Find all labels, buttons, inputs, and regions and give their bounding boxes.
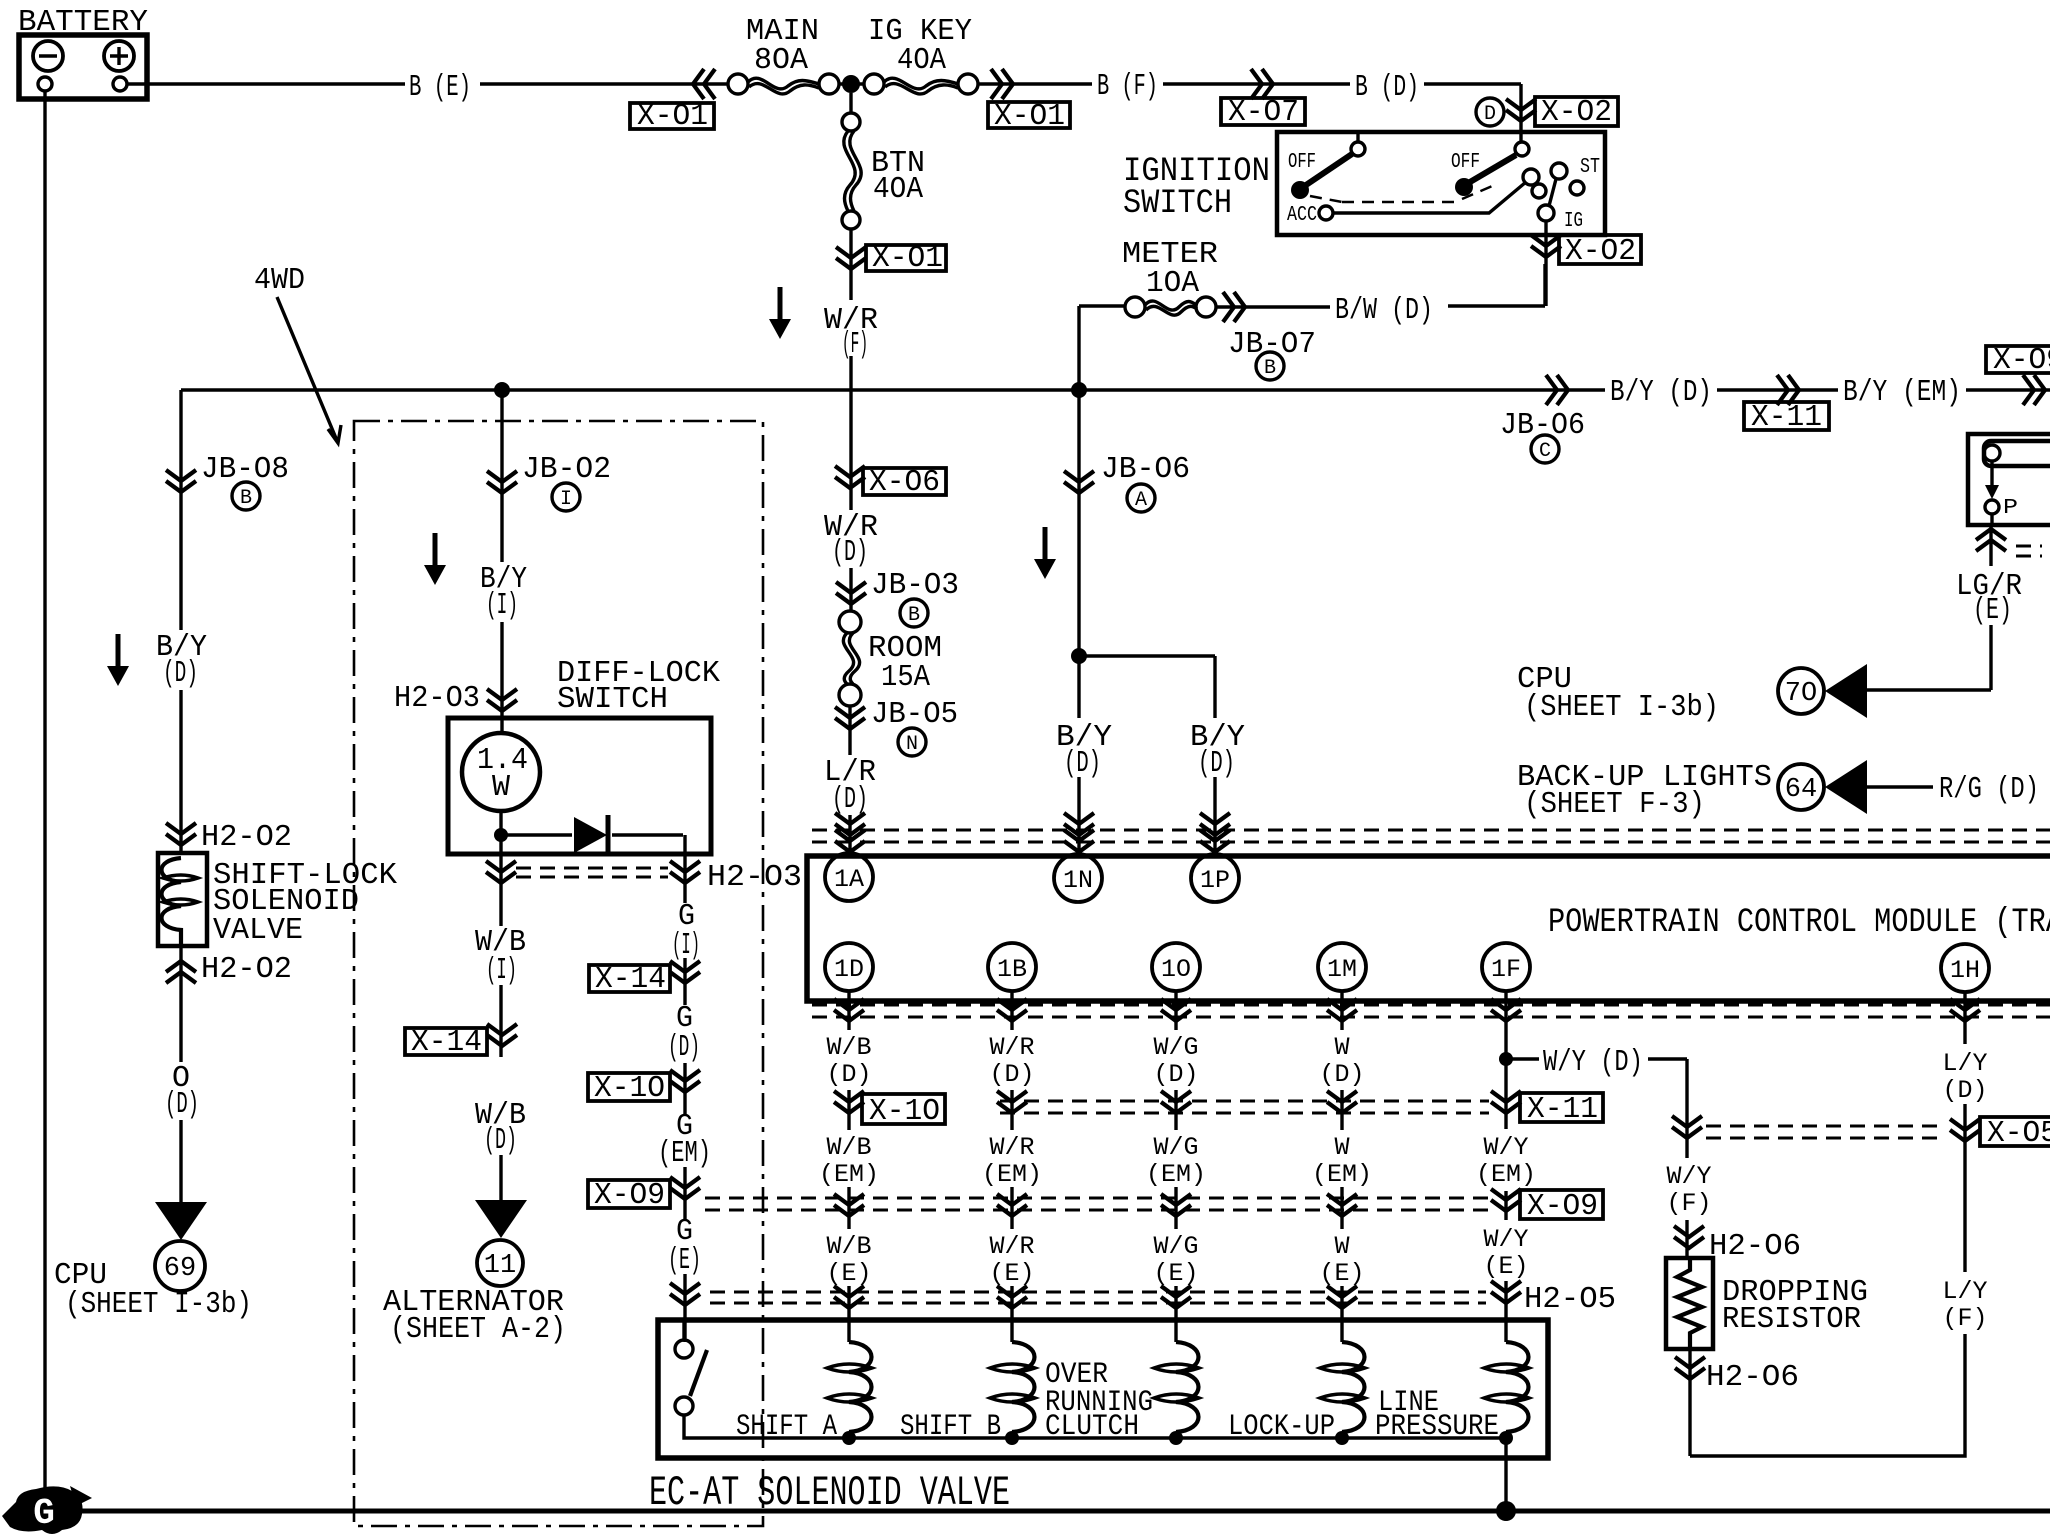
svg-text:W/G: W/G bbox=[1153, 1033, 1198, 1062]
junction dot lock-up bbox=[1335, 1431, 1349, 1445]
svg-text:POWERTRAIN CONTROL MODULE (TRA: POWERTRAIN CONTROL MODULE (TRA bbox=[1548, 904, 2050, 942]
harness dashes LG/R bbox=[2016, 546, 2042, 556]
connector X-11 bbox=[1744, 400, 1829, 435]
svg-text:(E): (E) bbox=[1483, 1252, 1528, 1281]
svg-text:W: W bbox=[1334, 1033, 1349, 1062]
connector chevron 1N bbox=[1064, 813, 1094, 835]
connector chevron X-01 right bbox=[991, 69, 1013, 99]
svg-text:N: N bbox=[906, 733, 918, 756]
wire W/Y (F) segments bbox=[1685, 1220, 1688, 1258]
svg-text:(I): (I) bbox=[486, 588, 518, 623]
connector chevron H2-06 lower bbox=[1675, 1357, 1705, 1379]
arrow to 70 bbox=[1825, 664, 1867, 718]
EC-AT switch contact upper bbox=[675, 1340, 693, 1358]
pin 1M bbox=[1318, 943, 1366, 991]
svg-text:ST: ST bbox=[1580, 156, 1600, 179]
connector chevron JB-03 B bbox=[836, 582, 866, 604]
svg-text:(EM): (EM) bbox=[1146, 1160, 1206, 1189]
connector chevron 1D bbox=[834, 999, 864, 1021]
svg-text:CLUTCH: CLUTCH bbox=[1045, 1410, 1139, 1444]
svg-text:(D): (D) bbox=[165, 1087, 199, 1122]
pin 1H bbox=[1941, 944, 1989, 992]
connector X-09 right bbox=[588, 1178, 670, 1213]
svg-text:(EM): (EM) bbox=[1312, 1160, 1372, 1189]
svg-text:(SHEET F-3): (SHEET F-3) bbox=[1524, 787, 1705, 822]
svg-text:15A: 15A bbox=[881, 660, 930, 695]
connector X-10 right bbox=[588, 1071, 670, 1106]
solenoid coil line pressure bbox=[1484, 1342, 1529, 1432]
svg-text:P: P bbox=[2003, 497, 2018, 520]
svg-text:4OA: 4OA bbox=[897, 43, 946, 78]
connector chevron 10 bbox=[1161, 999, 1191, 1021]
connector X-01 bbox=[866, 241, 946, 276]
junction dot shift A bbox=[842, 1431, 856, 1445]
svg-text:(I): (I) bbox=[672, 928, 700, 963]
fuse BTN 40A bbox=[842, 93, 861, 229]
svg-text:1P: 1P bbox=[1200, 866, 1230, 895]
connector chevron X-02 bbox=[1506, 99, 1536, 121]
junction dot diff-lock bbox=[494, 828, 508, 842]
wire battery negative to ground bbox=[43, 91, 46, 1490]
svg-text:11: 11 bbox=[484, 1251, 516, 1281]
svg-text:1A: 1A bbox=[834, 865, 864, 894]
wire 1D column bbox=[847, 991, 850, 1342]
svg-text:7O: 7O bbox=[1785, 679, 1817, 709]
svg-text:X-O2: X-O2 bbox=[1565, 234, 1636, 269]
connector chevron JB-07 bbox=[1223, 292, 1245, 322]
wire B(D) to ignition switch bbox=[1424, 84, 1521, 142]
wire into EC-AT switch bbox=[682, 1320, 685, 1340]
terminal circle 11 bbox=[477, 1240, 523, 1286]
wire W/R column to X-06 bbox=[848, 706, 851, 853]
svg-text:W/B: W/B bbox=[826, 1133, 871, 1162]
svg-text:(E): (E) bbox=[1973, 593, 2012, 628]
wire 1F column bbox=[1504, 991, 1507, 1342]
4WD pointer arrow bbox=[277, 297, 341, 443]
inhibitor switch box right edge bbox=[1968, 434, 2050, 525]
flow arrow bbox=[769, 287, 791, 339]
connector chevron H2-05 bbox=[1491, 1281, 1521, 1303]
solenoid coil overrunning clutch bbox=[1154, 1342, 1199, 1432]
connector chevron JB-06 A bbox=[1064, 471, 1094, 493]
svg-text:(E): (E) bbox=[826, 1259, 871, 1288]
connector chevron H2-03 right bbox=[670, 861, 700, 883]
svg-text:(D): (D) bbox=[1198, 746, 1235, 781]
svg-text:X-O7: X-O7 bbox=[1228, 95, 1299, 130]
svg-text:X-O5: X-O5 bbox=[1987, 1116, 2050, 1151]
wire BTN to W/R bbox=[849, 229, 852, 611]
svg-text:(D): (D) bbox=[826, 1060, 871, 1089]
svg-text:B/W (D): B/W (D) bbox=[1335, 293, 1433, 328]
svg-text:(D): (D) bbox=[832, 535, 868, 570]
svg-text:OFF: OFF bbox=[1451, 151, 1480, 174]
svg-text:X-O9: X-O9 bbox=[594, 1178, 665, 1213]
svg-text:64: 64 bbox=[1785, 775, 1817, 805]
indicator bulb 1.4W bbox=[462, 717, 540, 811]
svg-text:X-O2: X-O2 bbox=[1541, 95, 1612, 130]
svg-text:SHIFT B: SHIFT B bbox=[900, 1410, 1001, 1444]
connector X-01 bbox=[630, 99, 714, 134]
svg-text:H2-O5: H2-O5 bbox=[1524, 1282, 1616, 1317]
svg-text:H2-O2: H2-O2 bbox=[201, 820, 292, 855]
ignition switch SW1 bbox=[1277, 132, 1605, 235]
svg-text:X-O6: X-O6 bbox=[869, 465, 940, 500]
svg-text:W/Y (D): W/Y (D) bbox=[1543, 1045, 1643, 1080]
connector chevron LG/R bbox=[1976, 529, 2006, 551]
svg-text:X-O1: X-O1 bbox=[994, 99, 1065, 134]
connector chevrons H2-05 row bbox=[834, 1286, 864, 1308]
svg-text:SWITCH: SWITCH bbox=[557, 682, 668, 717]
svg-text:(D): (D) bbox=[1153, 1060, 1198, 1089]
terminal circle 69 bbox=[155, 1241, 205, 1291]
svg-text:L/Y: L/Y bbox=[1942, 1277, 1987, 1306]
svg-text:B (D): B (D) bbox=[1355, 70, 1419, 105]
harness dashes below PCM bbox=[812, 1005, 2050, 1017]
svg-text:ACC: ACC bbox=[1287, 204, 1317, 227]
wire labels W/B column bbox=[819, 1033, 879, 1288]
wire EC-AT to ground bbox=[1504, 1438, 1507, 1506]
connector X-02 bbox=[1535, 95, 1618, 130]
powertrain control module box bbox=[807, 856, 2050, 1001]
wire B/Y distribution line bbox=[181, 388, 2050, 391]
svg-text:X-O1: X-O1 bbox=[872, 241, 943, 276]
connector chevron X-09 right edge bbox=[2023, 375, 2045, 405]
flow arrow bbox=[424, 533, 446, 585]
connector X-06 bbox=[863, 465, 946, 500]
diode D1 bbox=[505, 815, 685, 855]
svg-text:G: G bbox=[33, 1493, 55, 1534]
flow arrow bbox=[1034, 527, 1056, 579]
connector X-02 bbox=[1559, 234, 1641, 269]
label LINE PRESSURE bbox=[1375, 1386, 1499, 1444]
connector chevrons X-10 row bbox=[997, 1091, 1027, 1113]
ground bus line bbox=[78, 1509, 2050, 1514]
svg-text:A: A bbox=[1135, 489, 1147, 512]
wire B/W (D) bbox=[1216, 264, 1545, 307]
svg-text:(D): (D) bbox=[989, 1060, 1034, 1089]
solenoid coil SHIFT A bbox=[827, 1342, 872, 1432]
4WD dash-dot boundary box bbox=[354, 421, 763, 1526]
connector X-09 bbox=[1986, 343, 2050, 378]
battery bbox=[19, 35, 147, 99]
harness dashes H2-03 bbox=[516, 868, 668, 877]
svg-text:JB-O6: JB-O6 bbox=[1500, 408, 1585, 443]
svg-text:B: B bbox=[908, 604, 920, 627]
wire 1B column bbox=[1010, 991, 1013, 1342]
solenoid coil SHIFT B bbox=[990, 1342, 1035, 1432]
wire B(F) bbox=[1163, 82, 1350, 85]
svg-text:B (E): B (E) bbox=[409, 70, 471, 105]
svg-text:1F: 1F bbox=[1491, 955, 1521, 984]
svg-text:W/G: W/G bbox=[1153, 1133, 1198, 1162]
arrowhead to alternator 11 bbox=[475, 1200, 527, 1238]
svg-text:(EM): (EM) bbox=[982, 1160, 1042, 1189]
svg-text:(E): (E) bbox=[668, 1243, 701, 1278]
wire R/G to 64 bbox=[1867, 785, 1933, 788]
connector chevron 1B bbox=[997, 999, 1027, 1021]
svg-text:H2-O6: H2-O6 bbox=[1706, 1360, 1799, 1395]
connector chevrons X-09 row bbox=[834, 1194, 864, 1216]
wire LG/R to 70 bbox=[1867, 525, 1991, 690]
svg-text:X-1O: X-1O bbox=[869, 1094, 940, 1129]
connector X-11 1F bbox=[1520, 1092, 1603, 1127]
svg-text:B (F): B (F) bbox=[1097, 69, 1158, 104]
svg-text:X-11: X-11 bbox=[1751, 400, 1822, 435]
svg-text:W/Y: W/Y bbox=[1483, 1225, 1528, 1254]
svg-text:1OA: 1OA bbox=[1146, 266, 1199, 301]
svg-text:69: 69 bbox=[164, 1254, 196, 1284]
svg-text:1M: 1M bbox=[1327, 955, 1357, 984]
connector chevron H2-06 upper bbox=[1674, 1226, 1704, 1248]
grommet D bbox=[1476, 98, 1504, 126]
svg-text:W/Y: W/Y bbox=[1483, 1133, 1528, 1162]
harness dashes above PCM bbox=[812, 830, 2050, 842]
connector chevron 1F bbox=[1491, 999, 1521, 1021]
wire 10 column bbox=[1174, 991, 1177, 1342]
wire B(E) battery positive to fuses bbox=[127, 82, 1092, 85]
svg-text:W/R: W/R bbox=[989, 1133, 1034, 1162]
svg-text:H2-O3: H2-O3 bbox=[707, 860, 802, 895]
wire JB-08 column bbox=[179, 390, 182, 1202]
svg-text:(EM): (EM) bbox=[1476, 1160, 1536, 1189]
EC-AT switch contact lower bbox=[675, 1397, 693, 1415]
svg-text:(E): (E) bbox=[1319, 1259, 1364, 1288]
connector chevron JB-06 C bbox=[1546, 375, 1568, 405]
svg-text:W: W bbox=[492, 770, 510, 805]
wire 1H column bbox=[1690, 991, 1965, 1456]
ground junction dot bbox=[1496, 1501, 1516, 1521]
connector chevron H2-02 lower bbox=[166, 961, 196, 983]
svg-text:X-O1: X-O1 bbox=[637, 99, 708, 134]
svg-text:4WD: 4WD bbox=[254, 263, 305, 298]
connector chevron 1A bbox=[835, 813, 865, 835]
wire W/Y (D) branch bbox=[1510, 1059, 1687, 1158]
terminal circle 64 bbox=[1778, 764, 1824, 810]
connector chevron W/Y (F) bbox=[1672, 1116, 1702, 1138]
pin 1D bbox=[825, 943, 873, 991]
connector chevron H2-03 left bbox=[486, 861, 516, 883]
svg-text:X-O9: X-O9 bbox=[1993, 343, 2050, 378]
wire diff-lock left leg bbox=[499, 838, 502, 1200]
shift-lock solenoid valve bbox=[158, 853, 207, 946]
svg-text:R/G (D): R/G (D) bbox=[1939, 772, 2039, 807]
terminal circle 70 bbox=[1778, 668, 1824, 714]
svg-text:1O: 1O bbox=[1161, 955, 1191, 984]
svg-text:H2-O2: H2-O2 bbox=[201, 952, 292, 987]
connector X-10 1D bbox=[862, 1094, 945, 1129]
svg-text:4OA: 4OA bbox=[873, 172, 923, 207]
connector X-14 left bbox=[405, 1025, 487, 1060]
fuse METER 10A bbox=[1079, 297, 1216, 317]
wire labels W column bbox=[1312, 1033, 1372, 1288]
svg-text:W/B: W/B bbox=[826, 1232, 871, 1261]
harness dashes H2-05 row bbox=[710, 1292, 1486, 1303]
arrowhead to CPU 69 bbox=[155, 1202, 207, 1240]
svg-text:B/Y (EM): B/Y (EM) bbox=[1843, 375, 1961, 410]
svg-text:(SHEET I-3b): (SHEET I-3b) bbox=[1524, 690, 1719, 725]
harness dashes X-10 row bbox=[1000, 1101, 1489, 1113]
junction dot overrunning clutch bbox=[1169, 1431, 1183, 1445]
svg-text:(F): (F) bbox=[842, 327, 868, 362]
svg-text:(D): (D) bbox=[832, 782, 868, 817]
wire JB-02 column bbox=[500, 390, 503, 717]
connector chevron 1H bbox=[1950, 999, 1980, 1021]
connector X-14 right bbox=[589, 962, 670, 997]
svg-text:SWITCH: SWITCH bbox=[1123, 185, 1232, 223]
junction dot JB-02 tap bbox=[494, 382, 510, 398]
wire branch to 1P bbox=[1083, 656, 1215, 853]
connector chevron X-05 bbox=[1950, 1119, 1980, 1141]
pin 1A bbox=[825, 853, 873, 901]
svg-text:JB-O6: JB-O6 bbox=[1101, 452, 1190, 487]
svg-text:W/R: W/R bbox=[989, 1033, 1034, 1062]
ground symbol G bbox=[2, 1486, 92, 1534]
svg-text:W: W bbox=[1334, 1232, 1349, 1261]
svg-text:X-14: X-14 bbox=[595, 962, 666, 997]
svg-text:(SHEET I-3b): (SHEET I-3b) bbox=[65, 1287, 252, 1322]
connector X-09 1F bbox=[1520, 1189, 1603, 1224]
connector chevron 1M bbox=[1327, 999, 1357, 1021]
connector chevron JB-08 bbox=[166, 470, 196, 492]
solenoid coil lock-up bbox=[1320, 1342, 1365, 1432]
svg-text:X-1O: X-1O bbox=[594, 1071, 665, 1106]
svg-text:L/Y: L/Y bbox=[1942, 1049, 1987, 1078]
svg-text:C: C bbox=[1539, 440, 1551, 463]
svg-text:I: I bbox=[560, 488, 572, 511]
svg-text:1B: 1B bbox=[997, 955, 1027, 984]
fuse ROOM 15A bbox=[839, 611, 861, 706]
junction dot line pressure bbox=[1499, 1431, 1513, 1445]
wire IG contact down to METER line bbox=[1544, 221, 1547, 306]
connector chevron H2-02 bbox=[166, 823, 196, 845]
wire diff-lock right leg G column bbox=[683, 855, 686, 1342]
svg-text:(D): (D) bbox=[1319, 1060, 1364, 1089]
svg-text:1N: 1N bbox=[1063, 866, 1093, 895]
svg-text:H2-O3: H2-O3 bbox=[394, 681, 480, 716]
svg-text:W/G: W/G bbox=[1153, 1232, 1198, 1261]
harness dashes X-05 row bbox=[1706, 1126, 1945, 1138]
junction dot JB-06 tap bbox=[1071, 382, 1087, 398]
fuse MAIN 80A bbox=[728, 74, 839, 94]
svg-text:RESISTOR: RESISTOR bbox=[1722, 1302, 1861, 1337]
svg-text:(D): (D) bbox=[668, 1030, 700, 1065]
svg-text:B: B bbox=[240, 487, 252, 510]
svg-text:W/R: W/R bbox=[989, 1232, 1034, 1261]
connector chevron X-01 BTN bbox=[836, 247, 866, 269]
svg-text:W/Y: W/Y bbox=[1666, 1162, 1711, 1191]
fuse IG KEY 40A bbox=[864, 74, 978, 94]
svg-text:X-11: X-11 bbox=[1527, 1092, 1598, 1127]
connector X-07 bbox=[1221, 95, 1305, 130]
diff-lock switch box bbox=[448, 718, 711, 854]
flow arrow bbox=[107, 634, 129, 686]
wire labels W/G column bbox=[1146, 1033, 1206, 1288]
svg-text:VALVE: VALVE bbox=[213, 913, 303, 948]
svg-text:(EM): (EM) bbox=[658, 1136, 711, 1171]
pin 1N bbox=[1054, 854, 1102, 902]
wire 1M column bbox=[1340, 991, 1343, 1342]
junction dot 1F W/Y tap bbox=[1499, 1052, 1513, 1066]
label OVERRUNNING CLUTCH bbox=[1045, 1358, 1153, 1444]
wire resistor to L/Y return bbox=[1688, 1349, 1691, 1456]
svg-text:8OA: 8OA bbox=[754, 43, 808, 78]
svg-text:B: B bbox=[1264, 357, 1276, 380]
svg-text:W: W bbox=[1334, 1133, 1349, 1162]
pin 1F bbox=[1482, 943, 1530, 991]
svg-text:LOCK-UP: LOCK-UP bbox=[1228, 1410, 1335, 1444]
wire EC-AT common bus bbox=[684, 1415, 1506, 1438]
svg-text:W/B: W/B bbox=[826, 1033, 871, 1062]
harness dashes X-09 row bbox=[705, 1198, 1489, 1210]
svg-text:OFF: OFF bbox=[1288, 151, 1316, 174]
junction dot 1N/1P split bbox=[1071, 648, 1087, 664]
connector chevron 1P bbox=[1200, 813, 1230, 835]
svg-text:(F): (F) bbox=[1666, 1189, 1711, 1218]
svg-text:(D): (D) bbox=[1064, 746, 1101, 781]
svg-text:1H: 1H bbox=[1950, 956, 1980, 985]
svg-text:H2-O6: H2-O6 bbox=[1709, 1229, 1801, 1264]
connector chevron X-11 bbox=[1777, 375, 1799, 405]
svg-text:D: D bbox=[1484, 103, 1496, 126]
connector chevron H2-05 left bbox=[670, 1283, 700, 1305]
arrow to 64 bbox=[1825, 760, 1867, 814]
svg-text:IG: IG bbox=[1564, 210, 1583, 233]
svg-text:SHIFT A: SHIFT A bbox=[736, 1410, 837, 1444]
svg-text:1D: 1D bbox=[834, 955, 864, 984]
junction dot main line bbox=[842, 75, 860, 93]
connector chevron X-06 bbox=[835, 466, 865, 488]
EC-AT solenoid valve box bbox=[658, 1320, 1548, 1458]
svg-text:(E): (E) bbox=[1153, 1259, 1198, 1288]
pin 1B bbox=[988, 943, 1036, 991]
connector chevron H2-03 bbox=[487, 689, 517, 711]
svg-text:PRESSURE: PRESSURE bbox=[1375, 1410, 1499, 1444]
svg-text:(D): (D) bbox=[484, 1123, 517, 1158]
connector X-05 bbox=[1980, 1116, 2050, 1151]
connector X-01 bbox=[988, 99, 1070, 134]
connector chevron X-01 left bbox=[693, 69, 715, 99]
connector chevron X-02 lower bbox=[1531, 235, 1561, 257]
pin 10 bbox=[1152, 943, 1200, 991]
svg-text:B/Y (D): B/Y (D) bbox=[1610, 375, 1712, 410]
connector chevron JB-05 N bbox=[835, 707, 865, 729]
connector chevron X-07 bbox=[1251, 69, 1273, 99]
svg-text:X-O9: X-O9 bbox=[1527, 1189, 1598, 1224]
junction dot shift B bbox=[1005, 1431, 1019, 1445]
svg-text:X-14: X-14 bbox=[411, 1025, 482, 1060]
wire JB-06 column bbox=[1077, 306, 1080, 853]
svg-text:(F): (F) bbox=[1942, 1304, 1987, 1333]
svg-text:(I): (I) bbox=[486, 953, 517, 988]
wire labels W/R column bbox=[982, 1033, 1042, 1288]
wire bulb to junction bbox=[499, 811, 502, 832]
svg-text:(SHEET A-2): (SHEET A-2) bbox=[390, 1312, 566, 1347]
svg-text:(D): (D) bbox=[163, 656, 198, 691]
pin 1P bbox=[1191, 854, 1239, 902]
svg-text:(EM): (EM) bbox=[819, 1160, 879, 1189]
svg-text:(E): (E) bbox=[989, 1259, 1034, 1288]
connector chevron JB-02 bbox=[487, 471, 517, 493]
svg-text:(D): (D) bbox=[1942, 1076, 1987, 1105]
EC-AT switch lever bbox=[690, 1350, 707, 1396]
dropping resistor bbox=[1666, 1258, 1713, 1349]
